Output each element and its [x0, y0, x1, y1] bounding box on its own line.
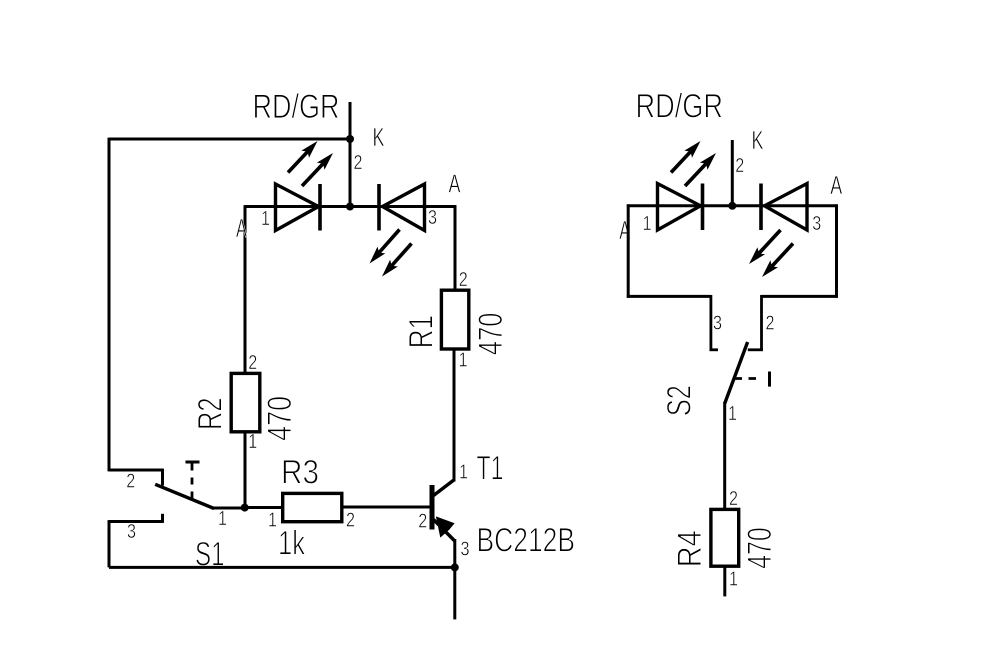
svg-text:3: 3: [127, 521, 136, 543]
wire: [835, 204, 838, 297]
resistor R1: [441, 290, 468, 349]
wire: [454, 205, 457, 290]
svg-text:1k: 1k: [278, 525, 306, 563]
wire: [762, 295, 838, 298]
svg-text:470: 470: [472, 313, 510, 356]
LED D1 emission arrow: [288, 141, 318, 173]
wire: [109, 566, 455, 569]
junction: [346, 135, 354, 143]
svg-text:A: A: [830, 170, 842, 200]
svg-text:3: 3: [713, 313, 722, 335]
svg-text:A: A: [449, 169, 461, 199]
svg-text:R1: R1: [403, 315, 441, 349]
LED D2 emission arrow: [382, 244, 412, 277]
svg-text:2: 2: [459, 269, 468, 291]
svg-text:2: 2: [126, 471, 135, 493]
svg-text:2: 2: [766, 313, 775, 335]
svg-text:2: 2: [729, 488, 738, 510]
svg-text:K: K: [752, 125, 764, 155]
wire: [108, 520, 111, 567]
svg-text:A: A: [236, 213, 247, 243]
svg-text:3: 3: [428, 207, 437, 229]
svg-text:470: 470: [261, 396, 299, 441]
resistor R2: [231, 373, 260, 431]
switch S1: [109, 462, 214, 523]
wire: [723, 566, 726, 596]
svg-text:RD/GR: RD/GR: [636, 88, 724, 126]
transistor T1: [432, 480, 455, 542]
svg-text:RD/GR: RD/GR: [253, 88, 340, 126]
svg-text:1: 1: [728, 403, 737, 425]
LED D3 emission arrow: [685, 153, 716, 186]
LED D4: [761, 184, 807, 231]
svg-text:2: 2: [354, 152, 363, 174]
wire: [213, 507, 246, 510]
junction: [241, 504, 249, 512]
svg-text:T1: T1: [477, 450, 504, 488]
svg-text:1: 1: [248, 431, 257, 453]
svg-text:2: 2: [418, 511, 427, 533]
LED D2 emission arrow: [370, 230, 400, 264]
node K net wire: [731, 140, 734, 207]
svg-text:2: 2: [735, 155, 744, 177]
junction: [451, 563, 459, 571]
LED D4 emission arrow: [762, 244, 793, 278]
switch S2: [710, 295, 770, 404]
svg-text:2: 2: [346, 510, 355, 532]
LED D1 anode wire: [244, 205, 247, 373]
wire: [627, 295, 711, 298]
svg-text:S2: S2: [661, 385, 699, 416]
wire: [342, 506, 431, 509]
LED D2: [379, 184, 425, 231]
wire: [453, 567, 456, 619]
svg-text:3: 3: [461, 539, 470, 561]
node K net wire: [349, 102, 352, 208]
wire: [244, 432, 247, 509]
svg-text:2: 2: [248, 352, 257, 374]
wire: [453, 349, 456, 482]
svg-text:1: 1: [268, 510, 277, 532]
wire: [108, 138, 111, 472]
svg-text:1: 1: [729, 569, 738, 591]
LED D3: [658, 184, 703, 231]
wire: [245, 205, 456, 208]
wire: [627, 204, 838, 207]
wire: [627, 204, 630, 297]
svg-text:1: 1: [459, 462, 468, 484]
svg-text:K: K: [373, 122, 385, 152]
svg-text:3: 3: [812, 213, 821, 235]
svg-text:1: 1: [218, 508, 227, 530]
svg-text:470: 470: [741, 527, 779, 569]
svg-text:1: 1: [261, 208, 270, 230]
svg-text:BC212B: BC212B: [477, 522, 576, 560]
junction: [728, 202, 736, 210]
wire: [723, 402, 726, 509]
wire: [453, 539, 456, 567]
LED D1: [276, 184, 321, 231]
svg-text:1: 1: [459, 350, 468, 372]
svg-text:1: 1: [643, 213, 652, 235]
wire: [109, 138, 351, 141]
junction: [346, 203, 354, 211]
LED D1 emission arrow: [302, 153, 333, 186]
LED D3 emission arrow: [671, 141, 701, 173]
svg-text:R2: R2: [192, 398, 230, 431]
LED D4 emission arrow: [749, 230, 781, 264]
resistor R3: [283, 493, 342, 521]
resistor R4: [711, 509, 739, 566]
svg-text:R4: R4: [671, 530, 709, 567]
svg-text:R3: R3: [281, 454, 319, 492]
wire: [244, 506, 283, 509]
